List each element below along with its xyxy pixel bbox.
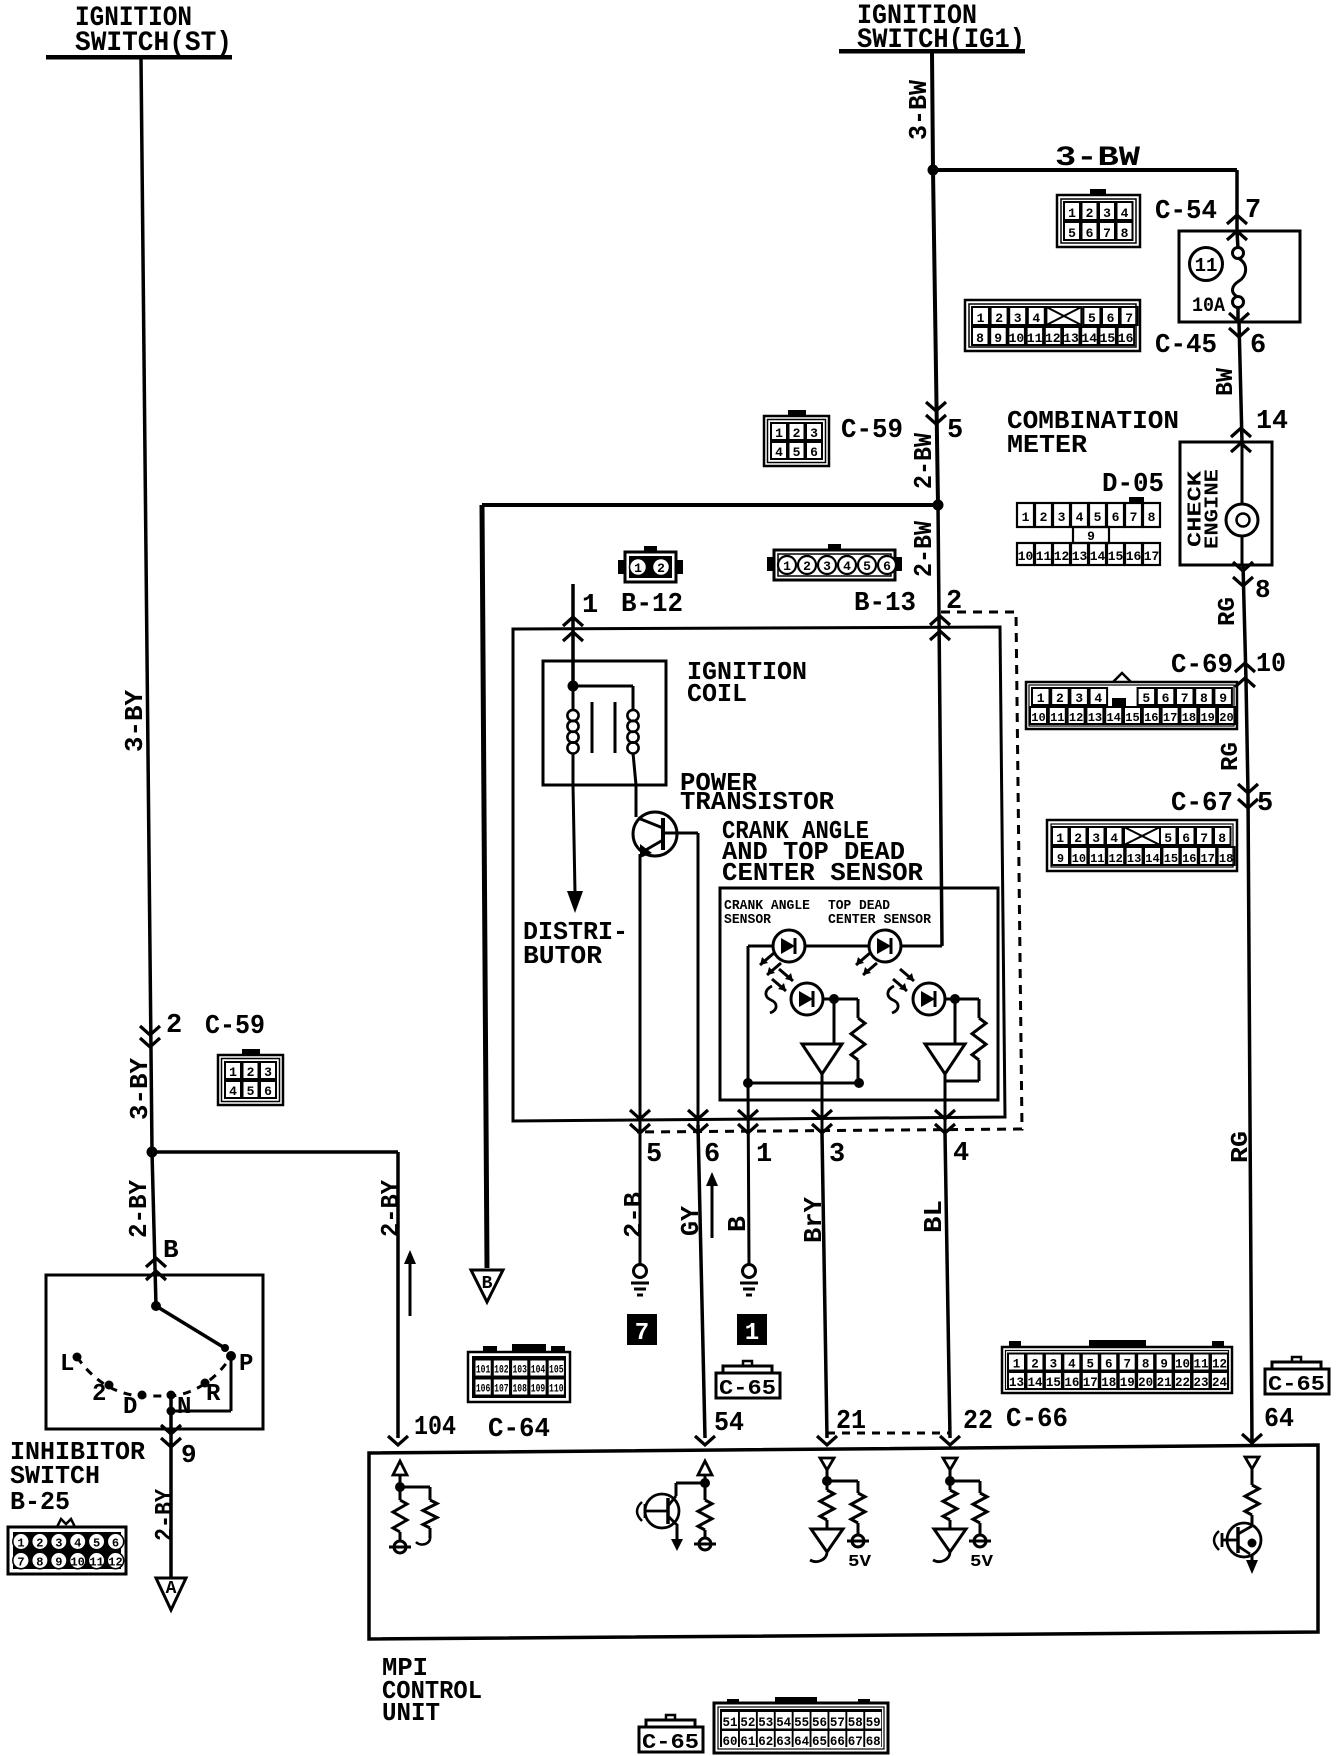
svg-text:CENTER SENSOR: CENTER SENSOR (828, 912, 932, 928)
svg-text:5: 5 (1164, 831, 1172, 846)
svg-text:6: 6 (1250, 331, 1266, 361)
svg-text:2-BY: 2-BY (376, 1180, 406, 1237)
svg-text:6: 6 (1105, 1358, 1113, 1372)
svg-text:L: L (60, 1351, 74, 1378)
svg-text:67: 67 (848, 1735, 863, 1749)
svg-text:BL: BL (919, 1200, 949, 1233)
svg-text:8: 8 (36, 1556, 43, 1570)
svg-text:1: 1 (229, 1065, 237, 1080)
svg-text:51: 51 (723, 1716, 738, 1730)
svg-text:2-BY: 2-BY (124, 1180, 154, 1238)
svg-text:7: 7 (1200, 831, 1208, 846)
svg-text:B-13: B-13 (854, 589, 916, 619)
svg-text:13: 13 (1127, 852, 1141, 866)
svg-text:16: 16 (1064, 1376, 1079, 1390)
svg-text:UNIT: UNIT (382, 1698, 440, 1728)
svg-text:5: 5 (646, 1140, 662, 1170)
svg-text:6: 6 (264, 1084, 272, 1099)
svg-text:8: 8 (1218, 831, 1226, 846)
svg-text:4: 4 (1121, 206, 1129, 221)
svg-text:18: 18 (1101, 1376, 1116, 1390)
svg-text:CENTER SENSOR: CENTER SENSOR (722, 858, 923, 888)
svg-text:2: 2 (166, 1011, 182, 1041)
svg-text:B: B (723, 1216, 753, 1232)
svg-text:19: 19 (1200, 711, 1214, 725)
svg-text:13: 13 (1009, 1376, 1024, 1390)
svg-text:8: 8 (1200, 691, 1208, 706)
svg-text:17: 17 (1144, 549, 1160, 564)
svg-text:RG: RG (1228, 1131, 1255, 1163)
svg-text:11: 11 (1036, 549, 1052, 564)
svg-text:5: 5 (247, 1084, 255, 1099)
svg-text:20: 20 (1219, 711, 1233, 725)
svg-text:10: 10 (1031, 711, 1045, 725)
svg-text:10: 10 (1175, 1358, 1190, 1372)
svg-text:17: 17 (1163, 711, 1177, 725)
svg-text:101: 101 (476, 1365, 491, 1377)
svg-text:21: 21 (1157, 1376, 1172, 1390)
svg-text:B: B (482, 1274, 493, 1294)
svg-text:10: 10 (70, 1556, 84, 1570)
svg-text:9: 9 (994, 331, 1002, 346)
svg-text:60: 60 (723, 1735, 738, 1749)
svg-text:5: 5 (793, 445, 801, 460)
svg-text:11: 11 (1090, 852, 1104, 866)
svg-text:102: 102 (494, 1365, 509, 1377)
svg-text:64: 64 (1264, 1405, 1294, 1435)
svg-text:2-BW: 2-BW (909, 521, 939, 577)
svg-text:11: 11 (1195, 255, 1218, 277)
svg-text:7: 7 (1130, 510, 1138, 525)
svg-text:TRANSISTOR: TRANSISTOR (680, 787, 834, 817)
svg-text:8: 8 (1121, 226, 1129, 241)
svg-text:5V: 5V (970, 1553, 994, 1572)
svg-text:2: 2 (247, 1065, 255, 1080)
svg-text:5: 5 (93, 1537, 100, 1551)
svg-text:11: 11 (1050, 711, 1064, 725)
svg-text:5: 5 (1142, 691, 1150, 706)
svg-text:15: 15 (1046, 1376, 1061, 1390)
svg-text:C-64: C-64 (488, 1415, 550, 1445)
svg-text:RG: RG (1218, 742, 1245, 771)
svg-text:6: 6 (810, 445, 818, 460)
svg-text:15: 15 (1125, 711, 1139, 725)
svg-text:54: 54 (714, 1409, 744, 1439)
svg-text:14: 14 (1027, 1376, 1043, 1390)
svg-text:2: 2 (36, 1537, 43, 1551)
svg-text:1: 1 (775, 426, 783, 441)
svg-text:17: 17 (1083, 1376, 1098, 1390)
svg-text:103: 103 (512, 1365, 527, 1377)
svg-text:12: 12 (1069, 711, 1083, 725)
svg-text:15: 15 (1108, 549, 1124, 564)
svg-text:1: 1 (756, 1140, 772, 1170)
svg-text:4: 4 (1110, 831, 1118, 846)
svg-text:8: 8 (1142, 1358, 1150, 1372)
svg-text:6: 6 (883, 559, 891, 574)
svg-text:4: 4 (953, 1139, 969, 1169)
svg-text:METER: METER (1007, 430, 1087, 460)
svg-text:16: 16 (1118, 331, 1134, 346)
svg-text:16: 16 (1126, 549, 1142, 564)
svg-text:56: 56 (812, 1716, 827, 1730)
svg-text:5V: 5V (848, 1553, 872, 1572)
svg-text:63: 63 (776, 1735, 791, 1749)
svg-text:104: 104 (414, 1413, 456, 1443)
svg-text:4: 4 (1068, 1358, 1076, 1372)
svg-text:1: 1 (1056, 831, 1064, 846)
svg-text:2-BY: 2-BY (150, 1489, 180, 1541)
svg-text:54: 54 (776, 1716, 791, 1730)
svg-text:BUTOR: BUTOR (523, 941, 602, 971)
svg-text:7: 7 (1181, 691, 1189, 706)
svg-text:2: 2 (657, 561, 665, 576)
svg-text:C-67: C-67 (1171, 789, 1233, 819)
svg-text:COIL: COIL (687, 679, 747, 709)
svg-text:14: 14 (1256, 407, 1288, 437)
svg-text:C-45: C-45 (1155, 331, 1217, 361)
svg-text:C-65: C-65 (1268, 1374, 1325, 1397)
svg-text:7: 7 (17, 1556, 24, 1570)
svg-text:1: 1 (582, 591, 598, 621)
svg-text:7: 7 (635, 1320, 649, 1347)
svg-text:1: 1 (783, 559, 791, 574)
svg-text:BrY: BrY (799, 1197, 829, 1243)
svg-text:52: 52 (740, 1716, 755, 1730)
svg-text:104: 104 (531, 1365, 546, 1377)
svg-text:N: N (177, 1394, 191, 1421)
svg-text:3: 3 (1050, 1358, 1058, 1372)
svg-text:1: 1 (1037, 691, 1045, 706)
svg-text:6: 6 (112, 1537, 119, 1551)
svg-text:1: 1 (977, 311, 985, 326)
svg-text:1: 1 (1013, 1358, 1021, 1372)
svg-text:64: 64 (794, 1735, 809, 1749)
svg-text:RG: RG (1215, 597, 1242, 626)
svg-text:B-12: B-12 (621, 590, 683, 620)
svg-text:4: 4 (1032, 311, 1040, 326)
svg-text:9: 9 (1057, 852, 1064, 866)
svg-text:6: 6 (1162, 691, 1170, 706)
svg-text:2: 2 (803, 559, 811, 574)
svg-text:9: 9 (181, 1440, 197, 1470)
svg-text:3: 3 (829, 1140, 845, 1170)
svg-text:13: 13 (1063, 331, 1079, 346)
svg-text:24: 24 (1212, 1376, 1228, 1390)
svg-text:6: 6 (1182, 831, 1190, 846)
svg-text:5: 5 (863, 559, 871, 574)
svg-text:16: 16 (1144, 711, 1158, 725)
svg-text:2: 2 (1074, 831, 1082, 846)
svg-text:2-BW: 2-BW (909, 433, 939, 489)
svg-text:2: 2 (1031, 1358, 1039, 1372)
svg-text:9: 9 (1087, 529, 1095, 544)
svg-text:59: 59 (866, 1716, 881, 1730)
svg-text:3-BW: 3-BW (904, 80, 934, 140)
svg-text:3: 3 (823, 559, 831, 574)
svg-text:C-65: C-65 (642, 1732, 699, 1755)
svg-text:SENSOR: SENSOR (724, 912, 772, 928)
svg-text:8: 8 (1255, 575, 1271, 605)
svg-text:4: 4 (843, 559, 851, 574)
svg-text:3: 3 (810, 426, 818, 441)
svg-text:SWITCH(ST): SWITCH(ST) (75, 28, 232, 59)
svg-text:9: 9 (1219, 691, 1227, 706)
svg-text:D: D (123, 1394, 137, 1421)
svg-text:R: R (206, 1381, 221, 1408)
svg-text:ENGINE: ENGINE (1201, 469, 1223, 549)
svg-text:A: A (166, 1579, 177, 1599)
svg-text:1: 1 (17, 1537, 24, 1551)
svg-text:12: 12 (1108, 852, 1122, 866)
svg-text:5: 5 (947, 416, 963, 446)
svg-text:19: 19 (1120, 1376, 1135, 1390)
svg-text:55: 55 (794, 1716, 809, 1730)
svg-text:1: 1 (745, 1320, 759, 1347)
svg-text:2: 2 (1056, 691, 1064, 706)
svg-text:11: 11 (1027, 331, 1043, 346)
svg-text:10: 10 (1018, 549, 1034, 564)
svg-text:12: 12 (1054, 549, 1070, 564)
svg-text:11: 11 (1193, 1358, 1208, 1372)
svg-text:106: 106 (476, 1384, 491, 1396)
svg-text:12: 12 (108, 1556, 122, 1570)
svg-text:22: 22 (1175, 1376, 1190, 1390)
svg-text:14: 14 (1145, 852, 1159, 866)
svg-text:5: 5 (1088, 311, 1096, 326)
svg-text:3: 3 (55, 1537, 62, 1551)
svg-text:B: B (163, 1235, 179, 1265)
svg-text:58: 58 (848, 1716, 863, 1730)
svg-text:C-59: C-59 (841, 416, 903, 446)
svg-text:66: 66 (830, 1735, 845, 1749)
svg-text:10: 10 (1256, 650, 1286, 680)
svg-text:2: 2 (995, 311, 1003, 326)
svg-text:GY: GY (676, 1206, 706, 1236)
svg-text:10: 10 (1009, 331, 1025, 346)
svg-text:14: 14 (1081, 331, 1097, 346)
svg-text:110: 110 (549, 1384, 564, 1396)
svg-text:7: 7 (1245, 196, 1261, 226)
svg-text:C-69: C-69 (1171, 651, 1233, 681)
svg-text:5: 5 (1257, 789, 1273, 819)
svg-text:10A: 10A (1192, 295, 1225, 318)
svg-text:12: 12 (1045, 331, 1061, 346)
svg-text:23: 23 (1193, 1376, 1208, 1390)
svg-text:7: 7 (1103, 226, 1111, 241)
svg-text:2: 2 (92, 1381, 106, 1408)
svg-text:P: P (239, 1351, 253, 1378)
svg-text:C-59: C-59 (205, 1012, 265, 1042)
svg-text:61: 61 (740, 1735, 755, 1749)
svg-text:3: 3 (1014, 311, 1022, 326)
svg-text:5: 5 (1068, 226, 1076, 241)
svg-text:BW: BW (1213, 367, 1240, 396)
svg-text:22: 22 (963, 1407, 993, 1437)
svg-text:15: 15 (1164, 852, 1178, 866)
svg-text:57: 57 (830, 1716, 845, 1730)
svg-text:4: 4 (775, 445, 783, 460)
svg-text:6: 6 (1086, 226, 1094, 241)
svg-text:9: 9 (55, 1556, 62, 1570)
svg-text:3: 3 (1075, 691, 1083, 706)
svg-text:2: 2 (1040, 510, 1048, 525)
svg-text:6: 6 (704, 1140, 720, 1170)
svg-text:62: 62 (758, 1735, 773, 1749)
svg-text:2-B: 2-B (619, 1192, 649, 1238)
svg-text:3: 3 (1092, 831, 1100, 846)
svg-text:109: 109 (531, 1384, 546, 1396)
svg-text:53: 53 (758, 1716, 773, 1730)
svg-text:B-25: B-25 (10, 1487, 70, 1517)
svg-text:4: 4 (1076, 510, 1084, 525)
svg-text:9: 9 (1160, 1358, 1168, 1372)
svg-text:4: 4 (74, 1537, 81, 1551)
svg-text:5: 5 (1087, 1358, 1095, 1372)
svg-text:3-BY: 3-BY (120, 690, 150, 752)
svg-text:11: 11 (89, 1556, 103, 1570)
svg-text:13: 13 (1088, 711, 1102, 725)
svg-text:4: 4 (1094, 691, 1102, 706)
svg-text:14: 14 (1106, 711, 1120, 725)
svg-text:2: 2 (793, 426, 801, 441)
svg-text:12: 12 (1212, 1358, 1227, 1372)
svg-text:3: 3 (264, 1065, 272, 1080)
svg-text:13: 13 (1072, 549, 1088, 564)
svg-text:107: 107 (494, 1384, 509, 1396)
svg-text:6: 6 (1112, 510, 1120, 525)
svg-text:C-65: C-65 (719, 1378, 776, 1401)
svg-text:5: 5 (1094, 510, 1102, 525)
svg-text:18: 18 (1182, 711, 1196, 725)
svg-text:1: 1 (634, 561, 642, 576)
svg-text:20: 20 (1138, 1376, 1153, 1390)
svg-text:7: 7 (1125, 311, 1133, 326)
svg-text:7: 7 (1123, 1358, 1131, 1372)
svg-text:2: 2 (1086, 206, 1094, 221)
svg-text:17: 17 (1200, 852, 1214, 866)
svg-text:C-66: C-66 (1006, 1405, 1068, 1435)
svg-text:3: 3 (1058, 510, 1066, 525)
svg-text:14: 14 (1090, 549, 1106, 564)
svg-text:105: 105 (549, 1365, 564, 1377)
svg-text:68: 68 (866, 1735, 881, 1749)
svg-text:1: 1 (1022, 510, 1030, 525)
svg-text:4: 4 (229, 1084, 237, 1099)
svg-text:3-BW: 3-BW (1055, 143, 1140, 174)
svg-text:108: 108 (512, 1384, 527, 1396)
svg-text:16: 16 (1182, 852, 1196, 866)
svg-text:C-54: C-54 (1155, 197, 1217, 227)
svg-text:10: 10 (1072, 852, 1086, 866)
svg-text:18: 18 (1219, 852, 1233, 866)
svg-text:65: 65 (812, 1735, 827, 1749)
svg-text:1: 1 (1068, 206, 1076, 221)
svg-text:8: 8 (1148, 510, 1156, 525)
svg-text:3: 3 (1103, 206, 1111, 221)
svg-text:8: 8 (976, 331, 984, 346)
svg-text:3-BY: 3-BY (125, 1058, 155, 1120)
svg-text:D-05: D-05 (1102, 470, 1164, 500)
svg-text:6: 6 (1107, 311, 1115, 326)
svg-text:15: 15 (1100, 331, 1116, 346)
